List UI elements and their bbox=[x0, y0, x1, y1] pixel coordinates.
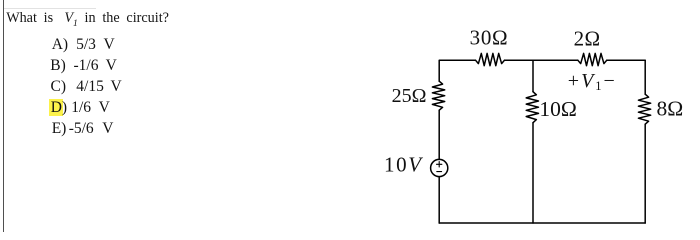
option C bbox=[51, 78, 67, 96]
wire: middle branch top bbox=[532, 60, 534, 91]
svg-text:30Ω: 30Ω bbox=[470, 26, 509, 50]
faint top rule bbox=[4, 8, 96, 9]
wire: top-left to 30ohm bbox=[439, 60, 475, 81]
option B bbox=[50, 57, 66, 75]
wire: right branch top bbox=[644, 60, 646, 94]
wire: bottom rail bbox=[439, 222, 645, 224]
svg-text:25Ω: 25Ω bbox=[392, 85, 427, 107]
voltage source V 10V bbox=[431, 159, 448, 176]
resistor R 25ohm (vertical left) bbox=[432, 81, 444, 110]
wire: 8ohm to bottom-right corner bbox=[644, 124, 646, 223]
option D bbox=[51, 99, 67, 117]
svg-text:2Ω: 2Ω bbox=[574, 26, 601, 50]
svg-text:10V: 10V bbox=[384, 153, 423, 177]
left page border line bbox=[3, 0, 4, 232]
resistor R 2ohm (horizontal) bbox=[578, 53, 607, 65]
wire: 25ohm to source bbox=[438, 110, 440, 159]
source minus sign bbox=[437, 171, 442, 173]
resistor R 8ohm (vertical right) bbox=[638, 94, 650, 124]
option E bbox=[52, 120, 67, 138]
svg-text:+V1−: +V1− bbox=[568, 70, 617, 93]
svg-text:10Ω: 10Ω bbox=[539, 97, 576, 121]
wire: 30ohm to 2ohm through middle node bbox=[505, 59, 578, 61]
source plus sign bbox=[437, 162, 442, 167]
highlight on D bbox=[49, 99, 63, 116]
resistor R 10ohm (vertical middle) bbox=[526, 92, 538, 123]
resistor R 30ohm (horizontal) bbox=[476, 53, 505, 65]
question text bbox=[6, 10, 169, 29]
option A bbox=[52, 36, 68, 54]
wire: 2ohm to top-right corner bbox=[607, 59, 645, 61]
wire: source to bottom-left corner bbox=[438, 177, 440, 223]
circuit schematic bbox=[370, 0, 700, 232]
svg-text:8Ω: 8Ω bbox=[657, 96, 684, 120]
wire: 10ohm to bottom rail bbox=[532, 123, 534, 223]
